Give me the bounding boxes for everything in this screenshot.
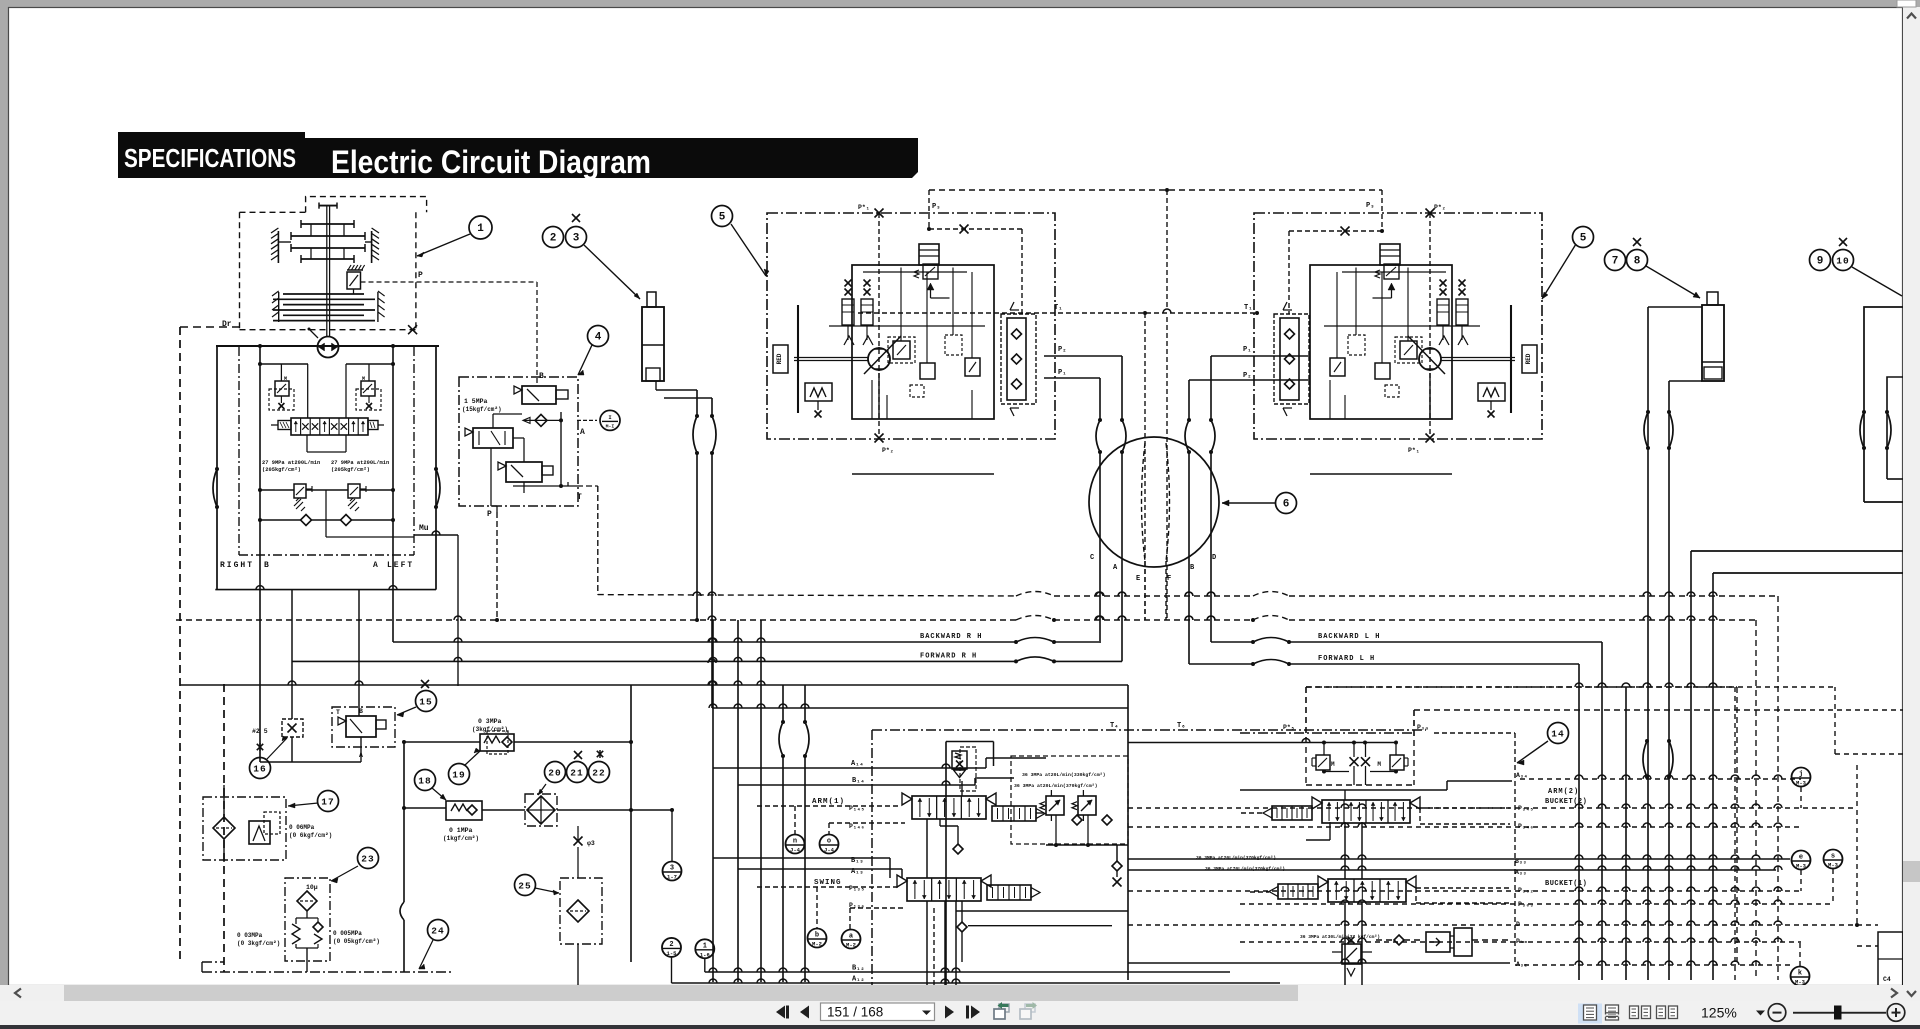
horizontal scrollbar left arrow — [15, 989, 21, 998]
horizontal scrollbar thumb — [64, 985, 1298, 1001]
mesh rail hops extra — [1341, 855, 1349, 859]
travel motor dash-dot box — [1254, 213, 1542, 439]
svg-text:C: C — [1090, 554, 1094, 562]
riser 359 — [358, 590, 360, 716]
right motor pilot dashed rect — [1381, 190, 1383, 231]
svg-text:36 3MPa at20L/min(330kgf/cm²): 36 3MPa at20L/min(330kgf/cm²) — [1022, 772, 1106, 778]
callout 16 — [250, 758, 271, 779]
leader 910 — [1852, 267, 1902, 296]
regulator right dashed box — [356, 389, 381, 410]
toolbar background — [0, 1001, 1920, 1025]
callout 14 — [1548, 723, 1569, 744]
conn s M-3 — [1824, 850, 1843, 869]
relief rail — [260, 489, 294, 491]
element 16 orifice — [282, 719, 303, 737]
btn next page — [945, 1006, 954, 1019]
reducing valve lower — [1342, 944, 1361, 964]
vertical scrollbar up arrow — [1907, 14, 1916, 19]
main relief left — [294, 484, 306, 498]
callout 20 — [545, 762, 566, 783]
swash plate — [797, 305, 799, 413]
svg-text:36 3MPa at20L/min(370kgf/cm²): 36 3MPa at20L/min(370kgf/cm²) — [1014, 783, 1098, 789]
hose arcs accumulator — [693, 416, 697, 453]
transmission dashed box — [240, 211, 306, 213]
svg-text:B₁₄: B₁₄ — [852, 777, 865, 785]
check to gauge — [524, 419, 561, 421]
servo valve a dashed — [888, 337, 915, 363]
riser arcs — [779, 722, 783, 756]
conn e M-3 — [1792, 851, 1811, 870]
hose arcs travel right — [1185, 420, 1189, 452]
check rail — [260, 519, 301, 521]
svg-text:I: I — [608, 414, 611, 421]
servo piping — [1324, 325, 1480, 327]
svg-text:(1kgf/cm²): (1kgf/cm²) — [443, 835, 479, 842]
toolbar bottom strip — [0, 1025, 1920, 1029]
svg-text:(0 3kgf/cm²): (0 3kgf/cm²) — [237, 940, 280, 947]
svg-text:#2 5: #2 5 — [252, 728, 268, 735]
svg-text:C4: C4 — [1883, 976, 1891, 983]
svg-text:P₁₄₆: P₁₄₆ — [849, 823, 865, 830]
wire P3c — [1472, 939, 1510, 941]
svg-text:M-2: M-2 — [812, 941, 822, 948]
svg-text:M-I: M-I — [606, 423, 615, 429]
vertical scrollbar thumb — [1903, 861, 1920, 882]
svg-text:Mu: Mu — [419, 524, 429, 533]
swivel joint circle — [1089, 437, 1219, 567]
arm1 spool — [912, 796, 986, 819]
svg-text:M-2: M-2 — [846, 942, 856, 949]
engine crank tee — [319, 205, 337, 207]
pump B riser — [259, 347, 261, 762]
callout 18 — [415, 770, 436, 791]
callout 25 — [515, 875, 536, 896]
callout 10 — [1833, 250, 1854, 271]
callout 3 — [566, 227, 587, 248]
conn o J-4 — [820, 835, 839, 854]
svg-text:3: 3 — [573, 233, 580, 245]
shaft arrow — [309, 329, 318, 338]
pump valve bank — [291, 418, 368, 435]
svg-text:0 1MPa: 0 1MPa — [449, 827, 473, 834]
regulator left — [275, 381, 289, 396]
Mu wire — [414, 534, 458, 536]
x mark 21 — [574, 751, 582, 759]
gauge conn 2 1-5 — [662, 938, 681, 957]
svg-text:25: 25 — [518, 881, 531, 892]
svg-text:φ3: φ3 — [587, 840, 595, 847]
P2 left line — [1044, 355, 1122, 357]
btn previous view — [999, 1004, 1009, 1012]
mesh rail — [1835, 753, 1903, 755]
svg-text:0 03MPa: 0 03MPa — [237, 932, 263, 939]
motor bottom rail — [852, 473, 994, 475]
motor top rails — [1342, 271, 1446, 273]
boom cylinder feeds — [1648, 306, 1702, 308]
element 20 filter valve — [525, 794, 557, 826]
cv boundary dash-dot — [871, 730, 873, 985]
btn first page — [776, 1006, 785, 1019]
callout 4 — [588, 326, 609, 347]
svg-text:n: n — [793, 838, 797, 846]
servo valve a dashed — [1395, 337, 1422, 363]
svg-text:3: 3 — [670, 865, 674, 873]
svg-text:P: P — [418, 271, 423, 280]
svg-text:P*₂: P*₂ — [1434, 204, 1446, 211]
solenoid pump item — [1394, 935, 1404, 945]
wire A12 — [672, 982, 1281, 984]
svg-text:19: 19 — [452, 770, 465, 781]
callout 24 — [428, 920, 449, 941]
cv mid check b — [957, 922, 967, 932]
svg-text:9: 9 — [1817, 256, 1824, 268]
svg-text:P₂: P₂ — [1243, 372, 1251, 380]
svg-text:6: 6 — [1283, 499, 1290, 511]
suction manifold — [215, 589, 436, 591]
pilot valve mid — [473, 428, 513, 448]
arm1 inlet relief — [946, 741, 994, 743]
svg-text:(205kgf/cm²): (205kgf/cm²) — [262, 467, 301, 473]
svg-text:o: o — [827, 838, 831, 846]
svg-text:SPECIFICATIONS: SPECIFICATIONS — [124, 143, 296, 173]
zoom slider — [1793, 1012, 1886, 1014]
svg-text:8: 8 — [1634, 256, 1641, 268]
inlet dashed box — [960, 747, 976, 791]
wire A14 — [713, 767, 986, 769]
main relief right — [348, 484, 360, 498]
travel motor inner box — [1310, 265, 1452, 419]
relief cluster left valve — [1316, 755, 1330, 770]
btn prev page — [800, 1006, 809, 1019]
wires 23 — [306, 911, 308, 918]
counterbalance valve dashed box — [1274, 314, 1309, 404]
element 15 valve — [346, 716, 376, 737]
motor pump circle — [868, 348, 890, 370]
callout 1 — [469, 216, 492, 239]
filter 17 — [213, 817, 235, 839]
boom cylinder rod — [1707, 292, 1718, 305]
svg-text:B: B — [264, 561, 269, 570]
bus solid 685 — [180, 684, 1128, 686]
center dashed drop 2 — [1144, 313, 1146, 620]
svg-text:M: M — [284, 376, 287, 382]
horizontal scrollbar track — [0, 985, 1903, 1001]
svg-text:BACKWARD L H: BACKWARD L H — [1318, 633, 1380, 641]
svg-text:E: E — [1136, 575, 1140, 583]
swivel solid lines right — [1188, 452, 1190, 664]
bank stub left — [278, 421, 291, 430]
svg-text:1: 1 — [703, 942, 707, 950]
svg-text:ARM(2): ARM(2) — [1548, 788, 1579, 796]
accumulator rod — [647, 292, 656, 307]
wire A13 — [738, 868, 902, 870]
mesh rail — [1306, 686, 1835, 688]
motor inner details — [1329, 380, 1331, 419]
tank dash-dot line — [202, 971, 452, 973]
vertical scrollbar down arrow — [1907, 991, 1916, 996]
mesh rail — [1128, 807, 1857, 809]
svg-text:M-3: M-3 — [1796, 863, 1807, 870]
hose arc pump left — [213, 469, 217, 507]
bucket1 spool — [1328, 879, 1406, 902]
svg-text:D: D — [1212, 554, 1216, 562]
element 19 throttle-check — [480, 734, 514, 751]
svg-text:M-3: M-3 — [1795, 979, 1806, 986]
cv check right — [1116, 845, 1118, 861]
relief cluster right valve — [1390, 755, 1404, 770]
svg-text:(0 05kgf/cm²): (0 05kgf/cm²) — [333, 938, 380, 945]
riser 292 — [291, 590, 293, 719]
arm cylinder frame — [1864, 307, 1903, 502]
servo actuator — [1478, 383, 1505, 401]
pto relief valve — [347, 269, 363, 271]
x mark drain — [408, 325, 417, 334]
servo valve d — [965, 358, 980, 376]
element 25 filter — [560, 878, 602, 944]
header bar — [295, 138, 918, 178]
svg-text:A: A — [580, 428, 585, 437]
svg-text:2: 2 — [669, 941, 673, 949]
check 23b — [313, 922, 323, 932]
pilot unit wires — [493, 413, 522, 415]
center pilot dashed vline — [878, 213, 880, 438]
servo piping — [829, 325, 985, 327]
cv mid check a — [953, 844, 963, 854]
lower wall left — [278, 292, 280, 322]
regulator right — [361, 381, 375, 396]
svg-text:21: 21 — [570, 768, 583, 779]
svg-text:FORWARD R H: FORWARD R H — [920, 653, 977, 661]
wires element 15-16 — [360, 737, 362, 762]
scrollbar top corner — [1897, 0, 1916, 7]
svg-text:P₂: P₂ — [1058, 346, 1066, 354]
gear wall left — [277, 231, 279, 263]
x mark 23 — [572, 214, 580, 222]
svg-text:T₁: T₁ — [1054, 304, 1062, 312]
conn n J-4 — [786, 835, 805, 854]
conn a M-2 — [842, 930, 861, 949]
backward LH wire — [1211, 641, 1253, 643]
svg-text:J-4: J-4 — [824, 847, 835, 854]
counterbalance valve — [1280, 318, 1299, 400]
motor bottom rail — [1310, 473, 1452, 475]
arm2 spool — [1322, 800, 1410, 823]
dashed horiz lower — [176, 619, 458, 621]
arm1 relief pair — [1046, 796, 1064, 815]
pilot valve bottom — [506, 462, 542, 482]
relief cluster X pair — [1350, 757, 1359, 766]
svg-text:A₁₄: A₁₄ — [851, 760, 864, 768]
svg-text:ARM(1): ARM(1) — [812, 798, 845, 806]
svg-text:P₃ₐ: P₃ₐ — [1417, 724, 1429, 731]
accumulator outlet — [655, 381, 657, 390]
svg-text:RED: RED — [776, 353, 783, 364]
mesh rail — [1515, 964, 1790, 966]
pilot T wire — [567, 482, 569, 486]
gauge M-1 — [600, 410, 620, 430]
svg-text:0 005MPa: 0 005MPa — [333, 930, 362, 937]
hose arcs boom — [1644, 412, 1648, 448]
swing spool — [907, 878, 981, 901]
relief 23a — [295, 918, 297, 924]
page number box — [821, 1003, 935, 1021]
servo valve b — [1375, 363, 1390, 379]
svg-text:18: 18 — [418, 776, 431, 787]
svg-text:10μ: 10μ — [306, 884, 318, 891]
svg-text:FORWARD L H: FORWARD L H — [1318, 655, 1375, 663]
pump drain dashed — [179, 327, 181, 962]
leader 2-3 — [584, 245, 640, 299]
svg-text:P₃: P₃ — [1366, 202, 1374, 210]
pilot valve top — [522, 386, 556, 404]
svg-text:T₆: T₆ — [1177, 722, 1185, 730]
pump drive circle — [318, 337, 339, 358]
arm1 pilot dashed wires — [757, 805, 901, 807]
svg-text:15: 15 — [419, 697, 432, 708]
svg-text:5: 5 — [1580, 233, 1587, 245]
RED box — [1522, 345, 1537, 373]
conn k M-3 — [1791, 967, 1810, 986]
motor pump circle — [1419, 348, 1441, 370]
top relief accumulator — [1380, 244, 1400, 265]
backward RH wire — [393, 641, 1016, 643]
bank bottom U link — [306, 435, 308, 452]
svg-text:M: M — [1331, 761, 1335, 768]
servo valve c dashed — [945, 335, 962, 355]
svg-text:RED: RED — [1525, 353, 1532, 364]
element 20 out — [631, 809, 672, 811]
element 15 dash-dot box — [332, 707, 395, 747]
callout 2 — [543, 227, 564, 248]
svg-text:23: 23 — [361, 854, 374, 865]
spring stack — [845, 280, 852, 287]
svg-text:4: 4 — [595, 332, 602, 344]
pilot feed wires lower — [404, 741, 480, 743]
svg-text:2: 2 — [550, 233, 557, 245]
horizontal scrollbar right arrow — [1891, 989, 1897, 998]
svg-text:(0 6kgf/cm²): (0 6kgf/cm²) — [289, 832, 332, 839]
gauge conn 3 1-7 — [663, 862, 682, 881]
boom cylinder body — [1702, 305, 1724, 381]
mesh rail — [1240, 941, 1801, 943]
swing risers — [944, 901, 946, 985]
swing pilot spool — [987, 885, 1031, 900]
motor shaft — [794, 357, 868, 359]
svg-text:151 / 168: 151 / 168 — [827, 1005, 883, 1020]
gauge conn 1 1-6 — [695, 939, 714, 958]
svg-text:1-7: 1-7 — [667, 874, 677, 881]
main pump outer frame — [216, 345, 439, 347]
svg-text:T: T — [577, 493, 582, 502]
svg-text:Electric Circuit Diagram: Electric Circuit Diagram — [331, 144, 651, 180]
svg-text:P*₅: P*₅ — [1283, 724, 1295, 731]
svg-text:J-4: J-4 — [790, 847, 801, 854]
svg-text:M-3: M-3 — [1796, 780, 1807, 787]
svg-text:j: j — [1799, 771, 1803, 779]
svg-text:(3kgf/cm²): (3kgf/cm²) — [472, 726, 508, 733]
swash plate — [1510, 305, 1512, 413]
pilot relief cluster dashed box — [1305, 687, 1307, 785]
zoom out button — [1768, 1004, 1786, 1022]
mesh rail — [1240, 903, 1833, 905]
arm2 pilot spool — [1272, 806, 1312, 820]
right cv dashed frame — [1306, 686, 1737, 688]
servo actuator — [805, 383, 832, 401]
view icon 1 — [1584, 1005, 1597, 1020]
svg-text:36 3MPa at30L/min(37 kgf/cm²): 36 3MPa at30L/min(37 kgf/cm²) — [1300, 934, 1380, 940]
svg-text:M: M — [1377, 761, 1381, 768]
mesh hose arcs — [1643, 741, 1647, 777]
svg-text:1: 1 — [477, 223, 484, 235]
bucket1 pilot dashes — [1250, 891, 1269, 893]
svg-text:P₁: P₁ — [1243, 346, 1251, 354]
callout 8 — [1627, 250, 1648, 271]
svg-text:0 06MPa: 0 06MPa — [289, 824, 315, 831]
spring stack — [1440, 280, 1447, 287]
forward RH wire — [292, 660, 1016, 662]
regulator left dashed box — [269, 389, 294, 410]
right rails — [1691, 550, 1903, 552]
star 22 — [597, 751, 603, 757]
bus dashed lower — [460, 619, 1016, 621]
btn last page — [966, 1006, 969, 1019]
svg-text:14: 14 — [1551, 729, 1564, 740]
travel motor inner box — [852, 265, 994, 419]
wire B13 — [713, 857, 890, 859]
motor inner details — [871, 380, 873, 419]
view icon 2 — [1606, 1005, 1619, 1020]
servo valve d — [1330, 358, 1345, 376]
svg-text:5: 5 — [719, 212, 726, 224]
svg-text:k: k — [1798, 970, 1802, 978]
mesh rail — [1801, 709, 1903, 711]
swivel dashed bows — [1142, 443, 1146, 561]
pump A riser — [392, 347, 394, 642]
cv risers mid — [926, 819, 928, 878]
svg-text:P₁: P₁ — [1058, 369, 1066, 377]
servo valve a — [1400, 341, 1417, 359]
cv inlet riser — [945, 742, 947, 986]
top pilot dashed rail — [929, 189, 1382, 191]
svg-text:10: 10 — [1836, 256, 1849, 267]
zoom in button — [1887, 1004, 1905, 1022]
mesh vertical solid wires — [1625, 687, 1627, 980]
svg-text:1-6: 1-6 — [700, 951, 710, 958]
pilot P wire — [496, 512, 498, 620]
svg-text:F: F — [1167, 575, 1171, 583]
svg-text:(15kgf/cm²): (15kgf/cm²) — [462, 406, 502, 413]
left riser bundle — [712, 620, 714, 982]
bank stub right — [368, 421, 378, 430]
cv right connect — [1036, 812, 1044, 814]
planetary gear upper — [301, 223, 354, 225]
svg-text:P*₁: P*₁ — [858, 204, 870, 211]
conn b M-2 — [808, 929, 827, 948]
svg-text:1 5MPa: 1 5MPa — [464, 398, 488, 405]
hose arcs travel left — [1096, 420, 1100, 452]
motor top rails — [863, 271, 967, 273]
svg-text:B: B — [539, 372, 544, 381]
bucket1 pilot spool — [1278, 884, 1318, 899]
counterbalance valve dashed box — [1001, 314, 1036, 404]
servo valve c dashed — [1348, 335, 1365, 355]
output gear lower — [283, 293, 364, 295]
leader 78 — [1646, 266, 1700, 298]
btn next view — [1025, 1004, 1035, 1012]
T1 dashed rail — [858, 312, 1257, 314]
view icon 4 — [1657, 1006, 1666, 1019]
svg-text:36 3MPa at70L/min(370kgf/cm²): 36 3MPa at70L/min(370kgf/cm²) — [1205, 866, 1285, 872]
